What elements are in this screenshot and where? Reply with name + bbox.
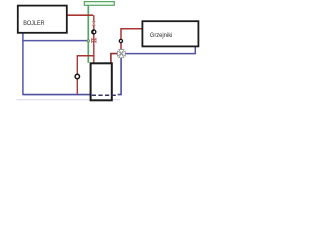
wire: red supply boiler to pump column [66, 14, 93, 16]
check valve V2 on pump column [92, 38, 96, 42]
boiler box B1 [18, 6, 67, 33]
wire: dashed return through tank [92, 94, 118, 96]
buffer tank box [91, 63, 112, 100]
wire: red valve top to radiators [121, 29, 143, 51]
wire: blue branch to green column [22, 40, 87, 42]
wire: blue right column to mixing valve [118, 57, 122, 95]
wire: red bypass branch horizontal [77, 55, 94, 57]
wire: green expansion pipe vertical [87, 5, 89, 63]
wire: blue radiator return [125, 46, 196, 54]
valve knob on green line [87, 40, 89, 42]
wire: blue bottom return horizontal [23, 94, 92, 96]
jpeg ghost under bottom return [17, 99, 121, 101]
svg-text:BOJLER: BOJLER [23, 20, 45, 27]
mixing valve M1 [117, 50, 125, 58]
svg-text:Grzejniki: Grzejniki [150, 32, 173, 39]
wire: red bypass vertical with ring [76, 56, 78, 95]
valve V1 above pump [93, 22, 95, 26]
expansion vessel EV (green bar) [84, 2, 114, 6]
wire: red pump column vertical [93, 15, 95, 63]
thermostatic ring on bypass [75, 74, 79, 78]
wire: blue return from boiler vertical [22, 33, 24, 95]
wire: red valve left arm to tank [111, 54, 118, 64]
radiators box [142, 21, 198, 46]
pump P1 [91, 29, 96, 34]
thermostatic ring on radiator supply [119, 39, 122, 42]
